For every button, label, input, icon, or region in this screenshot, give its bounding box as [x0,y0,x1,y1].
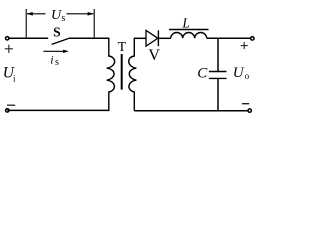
svg-text:s: s [55,57,59,68]
capacitor C top plate [209,71,227,73]
terminal input bottom-left [6,109,9,112]
wire inductor to output terminal [207,37,251,39]
inductor L core bar [169,29,209,31]
terminal input top-left [6,37,9,40]
svg-text:T: T [118,40,127,55]
svg-text:C: C [197,65,208,81]
arrow Us left [27,12,46,16]
svg-text:U: U [233,65,245,81]
svg-text:S: S [53,25,61,40]
svg-text:U: U [51,8,62,23]
wire bottom-right horizontal [134,110,248,112]
minus sign output [242,103,249,105]
capacitor C bottom plate [209,77,227,79]
plus sign input [5,45,13,53]
svg-text:V: V [148,47,160,64]
label is [50,52,59,68]
label U1 input voltage [3,65,16,84]
terminal output bottom-right [248,109,251,112]
diode V cathode bar [157,30,159,46]
label Us [51,8,65,24]
wire switch to corner [69,37,110,39]
node tick right of Us dimension [93,9,95,38]
wire diode to inductor [158,37,171,39]
svg-text:s: s [61,13,65,24]
switch S blade [52,38,70,44]
diode V triangle [146,30,158,46]
wire secondary top to diode [134,37,146,39]
plus sign output [241,42,248,49]
arrow Us right [67,12,94,16]
arrow is current [43,50,69,53]
svg-text:L: L [181,16,190,31]
transformer core [121,54,123,90]
wire top-left horizontal [9,37,49,39]
transformer secondary winding [129,38,137,111]
svg-text:i: i [50,52,53,66]
wire capacitor top vertical [217,38,219,71]
wire bottom-left horizontal [7,109,109,111]
node tick left of Us dimension [25,9,27,38]
wire capacitor bottom vertical [217,79,219,111]
terminal output top-right [251,37,254,40]
transformer primary winding [107,38,115,111]
minus sign input [7,104,15,106]
svg-text:o: o [245,71,250,81]
label Uo output voltage [233,65,250,81]
inductor L winding [171,33,207,39]
svg-text:i: i [13,74,16,84]
